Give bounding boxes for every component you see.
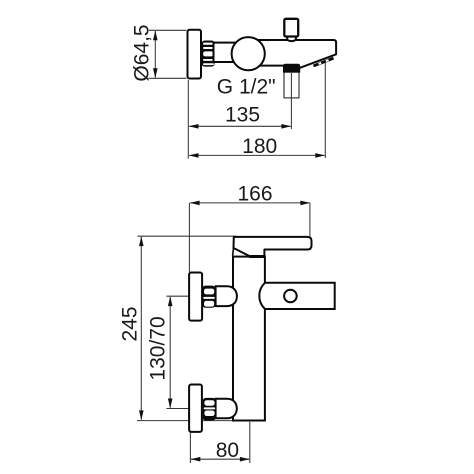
body column (front view) — [233, 257, 265, 421]
dimension 130/70 arrow down — [168, 399, 173, 409]
dimension 80 arrow right — [240, 457, 250, 462]
shower hose tube (top view) — [284, 72, 299, 98]
dimension 245 extension line bottom — [137, 420, 236, 422]
dimension Ø64,5 extension line bottom — [149, 77, 187, 79]
spout bar (front view) — [259, 283, 334, 309]
upper wall flange (front view) — [189, 273, 202, 321]
wall flange (top view) — [188, 30, 202, 79]
dimension Ø64,5 arrow up — [153, 31, 158, 41]
dimension 130/70 extension line top — [166, 295, 188, 297]
handle lever (front view) — [234, 237, 312, 256]
dimension 245 arrow up — [139, 236, 144, 246]
handle left sliver line — [232, 248, 235, 256]
dimension 130/70 extension line bottom — [166, 408, 188, 410]
cartridge circle (top view) — [232, 37, 265, 70]
dimension 180 arrow left — [189, 153, 199, 158]
dimension 80 arrow left — [191, 457, 201, 462]
dimension 135 line — [189, 125, 290, 127]
dimension 80 extension line left — [189, 433, 191, 464]
dimension 166 line — [190, 202, 310, 204]
svg-text:130/70: 130/70 — [147, 316, 170, 380]
dimension 135 arrow right — [281, 124, 291, 129]
shower hose connector black band (top view) — [283, 64, 300, 73]
dimension Ø64,5 line — [154, 31, 156, 78]
aerator outlet slab (top view) — [313, 57, 334, 68]
dimension 166 arrow left — [190, 201, 200, 206]
lower nut (front view) — [203, 398, 216, 421]
spout body bar (top view) — [244, 40, 336, 68]
upper nut (front view) — [202, 286, 215, 308]
connection nut (top view) — [202, 41, 215, 67]
dimension 135 extension line right — [290, 98, 292, 129]
svg-text:80: 80 — [216, 439, 239, 462]
dimension Ø64,5 extension line top — [149, 29, 187, 31]
dimension 245 arrow down — [139, 410, 144, 420]
dimension 166 extension line left — [188, 203, 190, 272]
dimension 130/70 line — [169, 297, 171, 408]
spout diverter hole (front view) — [284, 290, 297, 303]
dimension 135 arrow left — [189, 124, 199, 129]
svg-text:Ø64,5: Ø64,5 — [130, 24, 153, 81]
cartridge seam black band (front view) — [249, 256, 264, 258]
dimension 245 line — [140, 237, 142, 420]
svg-text:166: 166 — [237, 183, 272, 206]
dimension 180 extension line right — [324, 62, 326, 159]
svg-text:245: 245 — [119, 306, 142, 341]
svg-text:135: 135 — [225, 104, 260, 127]
svg-text:G 1/2": G 1/2" — [217, 76, 276, 99]
dimension 166 extension line right — [309, 203, 311, 237]
dimension 245 extension line top — [138, 235, 237, 237]
dimension 180 arrow right — [315, 153, 325, 158]
upper connector cap (front view) — [216, 286, 237, 306]
dimension 130/70 arrow up — [168, 296, 173, 306]
lower connector cap (front view) — [216, 399, 237, 419]
diverter knob stem (top view) — [287, 36, 296, 42]
lower wall flange (front view) — [189, 385, 202, 432]
dimension 80 line — [190, 458, 249, 460]
extension line wall face (top view) — [187, 80, 189, 159]
connector tube (top view) — [214, 43, 240, 62]
svg-text:180: 180 — [242, 135, 277, 158]
shower hose tube center line — [290, 73, 292, 98]
dimension 166 arrow right — [300, 201, 310, 206]
diverter knob (top view) — [284, 19, 298, 37]
dimension Ø64,5 arrow down — [153, 68, 158, 78]
dimension 180 line — [189, 154, 324, 156]
dimension 80 extension line right — [249, 422, 251, 463]
